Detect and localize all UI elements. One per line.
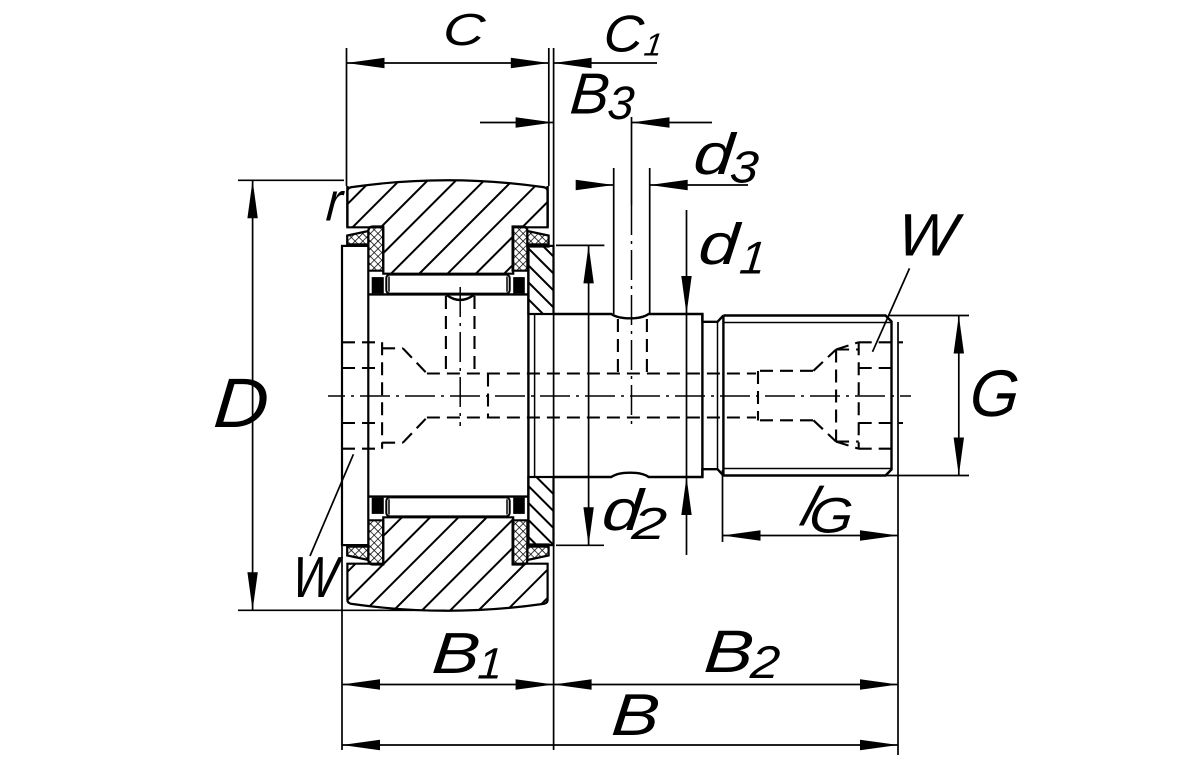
dimension B2 <box>554 684 898 686</box>
svg-text:3: 3 <box>606 76 637 129</box>
stud raceway top <box>368 293 528 295</box>
groove hole centreline <box>631 205 633 428</box>
seal bottom-right (elastomer cross-hatch) <box>513 520 528 564</box>
seal top-right (elastomer cross-hatch) <box>513 227 528 271</box>
svg-text:D: D <box>211 364 272 442</box>
dimension B3 <box>480 122 554 124</box>
thread root bottom (thin) <box>723 468 891 470</box>
svg-text:C: C <box>441 4 488 54</box>
extension line C right <box>548 48 550 186</box>
dimension d3 <box>578 184 614 186</box>
svg-text:B: B <box>609 681 662 747</box>
svg-text:2: 2 <box>748 637 782 688</box>
extension line flange face (C1 B3 B1 B2) <box>553 48 555 750</box>
end washer plate <box>342 246 368 545</box>
cage section top-right (black) <box>513 277 525 293</box>
drill behind right socket (hidden) <box>836 342 859 448</box>
dimension d2 <box>588 245 590 545</box>
seal lip top-left (black) <box>347 243 369 246</box>
thread root top (thin) <box>723 322 891 324</box>
outer ring bottom section (hatched) <box>347 517 547 610</box>
dimension G <box>958 316 960 476</box>
svg-text:B: B <box>568 62 612 127</box>
thread crest top <box>723 316 891 476</box>
dimension C1 <box>554 62 657 64</box>
seal lip bottom-left (black) <box>347 544 369 547</box>
roller end lines <box>389 277 507 515</box>
main centreline <box>328 395 911 397</box>
svg-text:G: G <box>807 488 855 543</box>
cage section bottom-right (black) <box>513 498 525 514</box>
seal lip bottom-right (black) <box>527 544 549 547</box>
thread start line <box>722 316 724 476</box>
extension line washer face bottom <box>341 545 343 750</box>
hex socket left (hidden) <box>342 342 382 448</box>
svg-text:d: d <box>696 211 743 276</box>
stud shoulder line <box>534 314 536 477</box>
svg-text:B: B <box>702 618 757 685</box>
dimension d1 <box>686 210 688 555</box>
needle roller bottom <box>386 497 509 516</box>
stud top surface with relubrication groove <box>554 314 724 322</box>
needle roller top <box>386 275 509 294</box>
flange collar top (hatched) <box>528 246 553 314</box>
shoulder face line at undercut <box>701 314 703 477</box>
svg-text:1: 1 <box>737 232 768 284</box>
dimension lG <box>723 535 899 537</box>
extension line thread end <box>897 322 899 755</box>
svg-text:C: C <box>601 6 646 63</box>
dimension D <box>252 180 254 610</box>
svg-text:B: B <box>430 620 483 685</box>
extension line C left <box>346 48 348 186</box>
seal bottom-left (elastomer cross-hatch) <box>368 520 383 564</box>
chamfer edge line <box>717 322 719 469</box>
dimension C <box>347 62 549 64</box>
stud raceway bottom <box>368 495 528 497</box>
cage section bottom-left (black) <box>372 498 384 514</box>
dimension B <box>342 744 898 746</box>
seal lip top-right (black) <box>527 243 549 246</box>
hex socket right (hidden) <box>859 342 903 448</box>
stud bottom surface with relubrication groove <box>554 469 724 477</box>
lubrication hole mouth arc <box>446 294 475 300</box>
radial hole at groove (hidden) <box>618 319 647 374</box>
countersink cone right (hidden) <box>813 350 836 442</box>
radial hole centreline <box>459 287 461 426</box>
svg-text:2: 2 <box>629 499 669 549</box>
drill behind left socket (hidden) <box>382 348 427 442</box>
svg-text:1: 1 <box>476 640 504 689</box>
flange collar bottom (hatched) <box>528 477 553 545</box>
svg-text:3: 3 <box>728 143 761 193</box>
flange bore line <box>527 246 529 545</box>
seal top-left (elastomer cross-hatch) <box>368 227 383 271</box>
duct step (hidden) <box>758 371 813 421</box>
cage section top-left (black) <box>372 277 384 293</box>
extension line lG left <box>722 470 724 542</box>
axial lubrication duct (hidden) <box>427 374 756 418</box>
outer ring top section (hatched) <box>347 180 547 273</box>
dimension B1 <box>342 684 554 686</box>
radial lubrication hole centre (hidden) <box>446 296 475 374</box>
svg-text:G: G <box>967 357 1022 431</box>
roller right face top <box>546 186 548 227</box>
roller left face top <box>346 186 348 227</box>
